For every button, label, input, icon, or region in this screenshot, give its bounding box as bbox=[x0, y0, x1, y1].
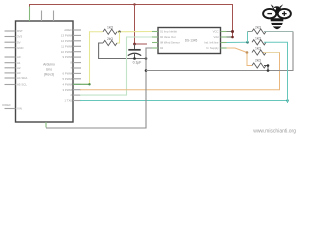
svg-text:3 PWM: 3 PWM bbox=[63, 88, 73, 92]
Arduino U1 label bbox=[43, 63, 55, 77]
wire yellow from Arduino pin D9 up to divider bbox=[80, 32, 103, 85]
wire R5 right lead bbox=[264, 52, 280, 54]
wire orange IC pin B diagonal to R5 bbox=[227, 48, 248, 53]
IC left pin stubs bbox=[152, 32, 158, 49]
svg-text:VIN: VIN bbox=[17, 107, 22, 111]
svg-text:5V: 5V bbox=[17, 40, 21, 44]
ground pin stub Arduino bottom bbox=[45, 122, 47, 128]
junction node N1 bbox=[118, 31, 120, 33]
wire teal A node up to R3 bbox=[247, 32, 249, 43]
svg-text:6 PWM: 6 PWM bbox=[63, 72, 73, 76]
svg-text:www.mischianti.org: www.mischianti.org bbox=[253, 129, 296, 135]
svg-text:Vdd: Vdd bbox=[214, 35, 219, 39]
Arduino U1 body bbox=[16, 21, 74, 122]
wire red branch to decoupling node bbox=[135, 5, 148, 45]
svg-text:3V3: 3V3 bbox=[17, 35, 23, 39]
svg-text:1kΩ: 1kΩ bbox=[255, 47, 262, 51]
node VCC-cap junction bbox=[133, 43, 136, 46]
wire green stub at Arduino pin D9 bbox=[73, 83, 90, 85]
svg-text:1kΩ: 1kΩ bbox=[255, 36, 262, 40]
junction R6 right bbox=[267, 64, 270, 67]
resistor R4 bbox=[252, 40, 266, 45]
wire IC VCC pin to red bbox=[227, 31, 233, 33]
svg-text:2kΩ: 2kΩ bbox=[255, 59, 262, 63]
Arduino 5V top pin (green) bbox=[29, 6, 31, 21]
junction R6 bottom bbox=[267, 69, 270, 72]
junction divider input bbox=[88, 83, 90, 85]
svg-text:GND: GND bbox=[17, 46, 23, 50]
wire R6 right to ground rail bbox=[264, 66, 268, 71]
svg-text:A4 SDA: A4 SDA bbox=[17, 76, 27, 80]
junction teal B line bbox=[286, 99, 289, 102]
wire orange from Arduino pin 3 to right network bbox=[80, 53, 280, 90]
junction red VCC bbox=[231, 30, 234, 33]
wire IC pin R2 to red bbox=[227, 36, 233, 38]
Arduino top pin stubs bbox=[42, 11, 54, 22]
svg-text:AREF: AREF bbox=[64, 28, 72, 32]
svg-text:01 Imp Inhibit: 01 Imp Inhibit bbox=[160, 30, 177, 34]
svg-text:N. Supply: N. Supply bbox=[206, 46, 219, 50]
wire orange B node down to R6 bbox=[247, 53, 252, 66]
svg-text:IM Wind Sensor: IM Wind Sensor bbox=[160, 41, 180, 45]
junction ground rail end bbox=[145, 57, 148, 60]
junction cap to ground rail bbox=[133, 57, 136, 60]
svg-text:RST: RST bbox=[17, 29, 23, 33]
svg-text:Uno: Uno bbox=[46, 68, 52, 72]
junction B node bbox=[246, 51, 249, 54]
wire teal R4 right to B drop bbox=[264, 42, 288, 103]
IC pin labels bbox=[160, 30, 180, 51]
svg-text:04: 04 bbox=[160, 46, 164, 50]
svg-text:VCC: VCC bbox=[213, 30, 219, 34]
wire yellow N1 down to R2 bbox=[117, 32, 120, 43]
junction 5V branch bbox=[133, 3, 135, 5]
svg-text:Arduino: Arduino bbox=[43, 63, 55, 67]
svg-text:10 PWM: 10 PWM bbox=[61, 50, 73, 54]
svg-text:A0: A0 bbox=[17, 55, 21, 59]
wire R2 left to ground rail bbox=[99, 43, 146, 59]
wire R3 right to ground drop bbox=[264, 31, 293, 33]
Arduino left pin stubs bbox=[5, 31, 16, 109]
svg-text:5 PWM: 5 PWM bbox=[63, 77, 73, 81]
svg-text:02 Vane Out: 02 Vane Out bbox=[160, 35, 176, 39]
svg-text:9 PWM: 9 PWM bbox=[63, 55, 73, 59]
svg-text:0.1µF: 0.1µF bbox=[133, 61, 142, 65]
Arduino right pin labels bbox=[61, 28, 73, 103]
wire teal IC pin A to R4 bbox=[227, 41, 248, 43]
capacitor C1 0.1µF bbox=[134, 44, 136, 49]
svg-text:A5 SCL: A5 SCL bbox=[17, 83, 27, 87]
wire teal from Arduino pin 1 to B line bbox=[80, 100, 288, 102]
svg-text:A2: A2 bbox=[17, 66, 21, 70]
junction A node bbox=[246, 41, 249, 44]
wire red 5V from Arduino top to IC VCC bbox=[30, 5, 233, 38]
junction red pin R2 bbox=[231, 36, 234, 39]
svg-text:IOREF: IOREF bbox=[2, 103, 11, 107]
Arduino right pin stubs bbox=[73, 30, 81, 101]
svg-text:A1: A1 bbox=[17, 61, 21, 65]
wire ground rail to right resistors bbox=[146, 32, 293, 71]
svg-text:4 PWM: 4 PWM bbox=[63, 82, 73, 86]
wire ground main vertical bbox=[46, 48, 152, 128]
wire R1 to IC RO pin bbox=[117, 31, 152, 33]
resistor R3 bbox=[252, 29, 266, 34]
svg-text:13 PWM: 13 PWM bbox=[61, 34, 73, 38]
svg-text:DS-1345: DS-1345 bbox=[185, 39, 198, 43]
IC U2 body bbox=[158, 28, 221, 54]
wire R3 left lead bbox=[248, 31, 253, 33]
svg-text:2kΩ: 2kΩ bbox=[107, 37, 114, 41]
wire mint from Arduino pin 2 to IC pin 2 bbox=[80, 37, 152, 95]
svg-text:(Rev3): (Rev3) bbox=[44, 73, 54, 77]
Arduino left pin labels bbox=[2, 29, 27, 111]
svg-text:1kΩ: 1kΩ bbox=[107, 26, 114, 30]
resistor R5 bbox=[252, 50, 266, 55]
resistor R1 1kΩ bbox=[103, 29, 117, 34]
svg-text:1 TX0: 1 TX0 bbox=[64, 99, 72, 103]
svg-text:A3: A3 bbox=[17, 71, 21, 75]
resistor R2 2kΩ bbox=[103, 40, 117, 45]
svg-text:12 PWM: 12 PWM bbox=[61, 39, 73, 43]
svg-text:2kΩ: 2kΩ bbox=[255, 26, 262, 30]
IC right pin stubs bbox=[221, 32, 227, 49]
svg-text:11 PWM: 11 PWM bbox=[61, 44, 72, 48]
bee logo mischianti bbox=[263, 4, 291, 29]
junction ground-70 rail bbox=[145, 69, 148, 72]
resistor R6 bbox=[252, 63, 266, 68]
svg-text:Ind. left line: Ind. left line bbox=[204, 41, 219, 45]
